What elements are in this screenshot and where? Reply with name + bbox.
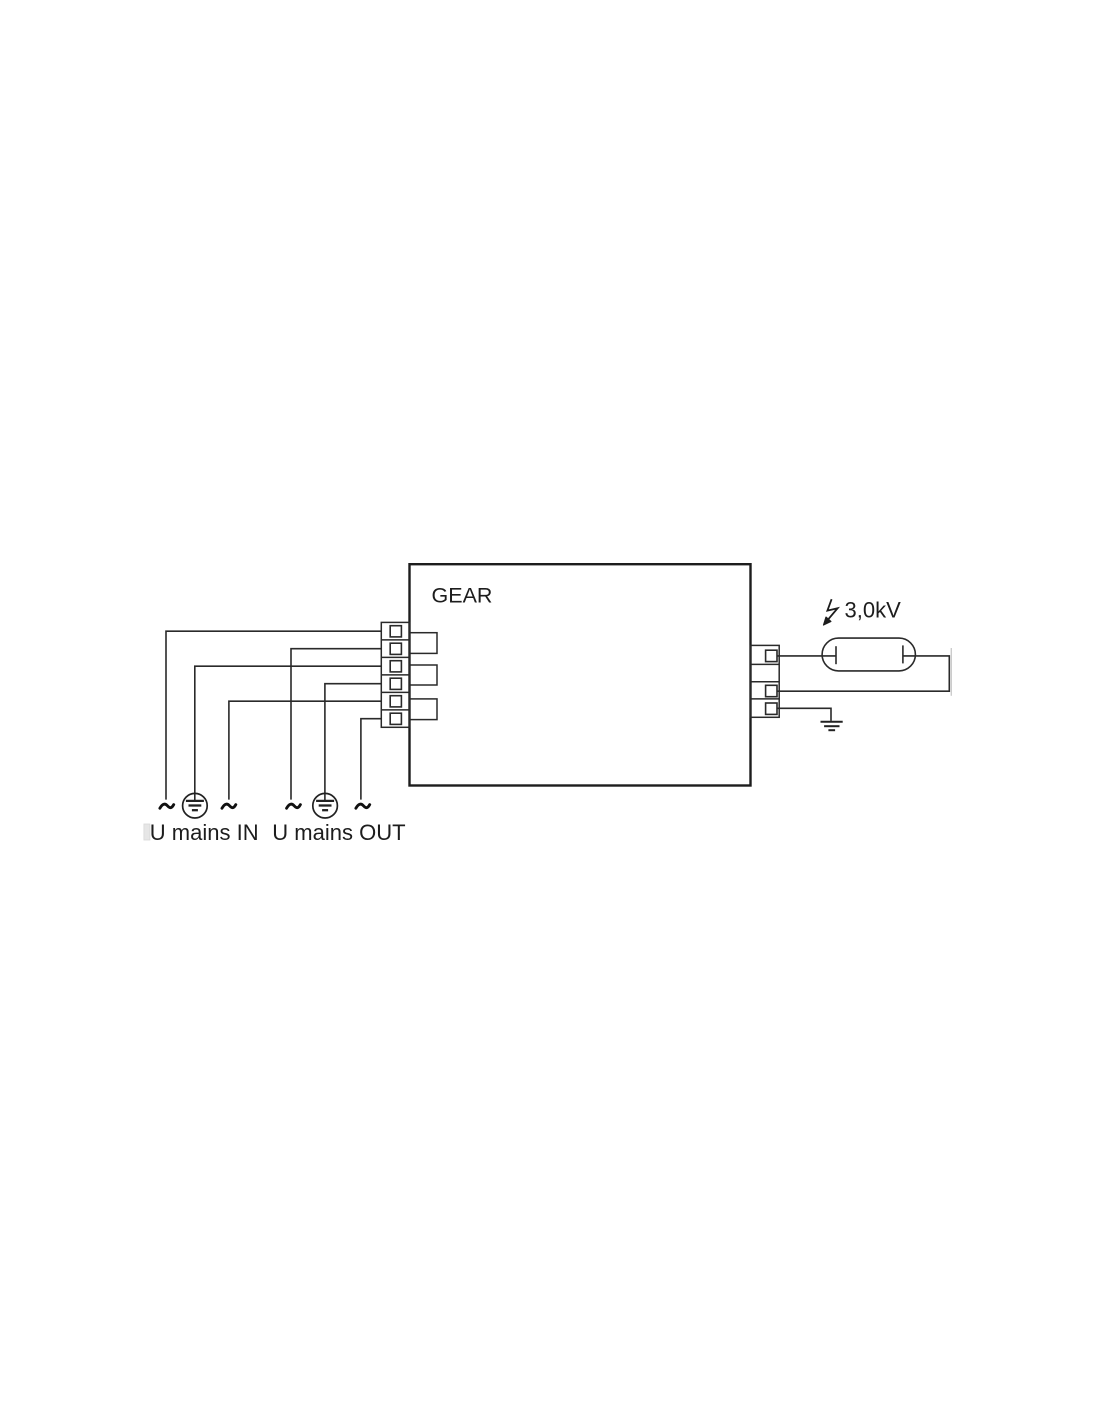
wire PE mains OUT (TB1-4) xyxy=(325,684,381,801)
wire L mains OUT (TB1-2) xyxy=(291,649,381,800)
terminal TB1-4 xyxy=(390,678,401,689)
AC symbol ~ (mains IN line) xyxy=(160,804,174,808)
wire lamp right electrode return to TB2-2 xyxy=(777,656,949,691)
gear box U1 xyxy=(410,564,751,785)
jumper link TB1-3 to TB1-4 xyxy=(410,665,438,685)
AC symbol ~ (mains OUT line) xyxy=(287,804,301,808)
terminal TB2-3 xyxy=(766,703,777,714)
svg-text:GEAR: GEAR xyxy=(432,584,493,608)
terminal TB2-1 xyxy=(766,650,777,661)
ignition voltage lightning arrow xyxy=(824,599,838,625)
wire PE mains IN (TB1-3) xyxy=(195,666,381,801)
svg-text:3,0kV: 3,0kV xyxy=(845,598,902,623)
wire N mains OUT (TB1-6) xyxy=(361,719,381,800)
wire L mains IN (TB1-1) xyxy=(166,631,381,799)
wire N mains IN (TB1-5) xyxy=(229,701,381,799)
protective earth symbol (mains IN) xyxy=(183,793,208,818)
jumper link TB1-1 to TB1-2 xyxy=(410,633,438,654)
faint guide line artifact xyxy=(950,648,952,696)
lamp LA (discharge lamp) xyxy=(822,638,915,671)
ground symbol (lamp circuit earth) xyxy=(821,722,843,730)
terminal TB1-5 xyxy=(390,696,401,707)
svg-text:U mains OUT: U mains OUT xyxy=(272,820,405,845)
wire TB2-1 to lamp left electrode xyxy=(777,655,836,657)
lamp left electrode xyxy=(835,646,837,664)
terminal TB1-6 xyxy=(390,713,401,724)
terminal TB2-2 xyxy=(766,685,777,696)
svg-text:U mains IN: U mains IN xyxy=(150,820,259,845)
terminal TB1-2 xyxy=(390,643,401,654)
AC symbol ~ (mains OUT neutral) xyxy=(356,804,370,808)
terminal TB1-1 xyxy=(390,626,401,637)
cursor artifact mark xyxy=(144,824,150,840)
protective earth symbol (mains OUT) xyxy=(313,793,338,818)
wire TB2-3 to ground xyxy=(777,708,831,721)
terminal TB1-3 xyxy=(390,661,401,672)
jumper link TB1-5 to TB1-6 xyxy=(410,699,438,720)
terminal block TB1 (mains side, 6-pole) xyxy=(381,622,409,727)
AC symbol ~ (mains IN neutral) xyxy=(222,804,236,808)
terminal block TB2 (lamp side, 4-pole) xyxy=(751,645,780,717)
lamp right electrode xyxy=(902,645,904,663)
